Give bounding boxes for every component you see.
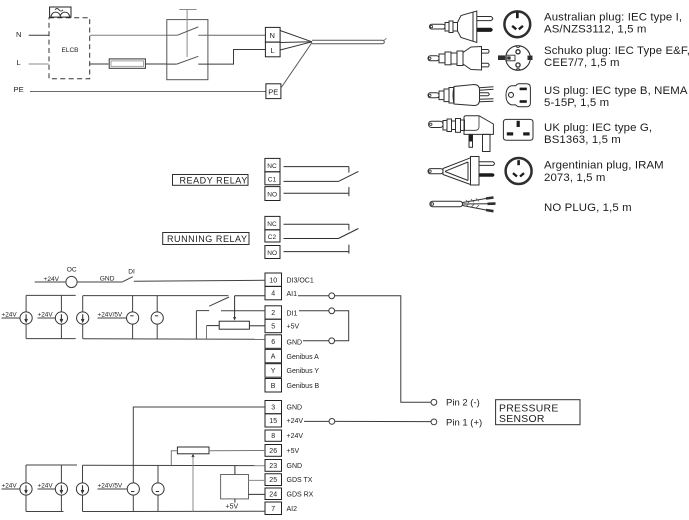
svg-text:7: 7 (271, 506, 275, 513)
svg-text:BS1363, 1,5 m: BS1363, 1,5 m (544, 134, 621, 146)
svg-text:DI: DI (128, 269, 135, 276)
svg-text:5: 5 (271, 324, 275, 331)
svg-text:AI1: AI1 (287, 291, 298, 298)
svg-text:L: L (271, 46, 275, 55)
svg-text:N: N (16, 30, 21, 39)
svg-text:+5V: +5V (287, 448, 300, 455)
svg-text:+5V: +5V (226, 504, 239, 511)
svg-text:+24V/5V: +24V/5V (98, 483, 123, 490)
svg-text:NC: NC (267, 221, 277, 228)
svg-text:DI3/OC1: DI3/OC1 (287, 277, 314, 284)
svg-text:24: 24 (269, 491, 277, 498)
svg-text:25: 25 (269, 477, 277, 484)
svg-text:GDS RX: GDS RX (287, 491, 314, 498)
svg-text:+24V: +24V (38, 483, 54, 490)
svg-text:NO: NO (267, 250, 277, 257)
svg-text:Schuko plug: IEC Type E&F,: Schuko plug: IEC Type E&F, (544, 45, 689, 57)
svg-text:+24V: +24V (38, 312, 54, 319)
svg-text:Argentinian plug, IRAM: Argentinian plug, IRAM (544, 160, 664, 172)
svg-text:23: 23 (269, 463, 277, 470)
svg-text:C1: C1 (268, 176, 277, 183)
svg-text:Genibus Y: Genibus Y (287, 368, 320, 375)
svg-text:3: 3 (271, 405, 275, 412)
svg-text:GND: GND (100, 275, 115, 282)
svg-text:Genibus A: Genibus A (287, 354, 320, 361)
svg-text:DI1: DI1 (287, 310, 298, 317)
svg-text:RUNNING RELAY: RUNNING RELAY (167, 234, 248, 244)
svg-text:2073, 1,5 m: 2073, 1,5 m (544, 172, 605, 184)
svg-text:+24V: +24V (287, 418, 304, 425)
svg-text:+24V/5V: +24V/5V (98, 312, 123, 319)
svg-text:C2: C2 (268, 234, 277, 241)
svg-text:US plug: IEC type B, NEMA: US plug: IEC type B, NEMA (544, 85, 688, 97)
svg-text:PE: PE (14, 85, 24, 94)
svg-text:5-15P, 1,5 m: 5-15P, 1,5 m (544, 97, 609, 109)
svg-text:NO: NO (267, 192, 277, 199)
svg-text:10: 10 (269, 277, 277, 284)
svg-text:GND: GND (287, 339, 303, 346)
svg-text:B: B (271, 383, 276, 390)
svg-text:+24V: +24V (2, 483, 18, 490)
svg-text:15: 15 (269, 418, 277, 425)
svg-text:CEE7/7, 1,5 m: CEE7/7, 1,5 m (544, 57, 620, 69)
svg-text:A: A (271, 354, 276, 361)
svg-text:N: N (270, 31, 275, 40)
svg-text:26: 26 (269, 448, 277, 455)
svg-text:L: L (17, 58, 21, 67)
svg-text:GND: GND (287, 405, 303, 412)
svg-text:GND: GND (287, 463, 303, 470)
svg-text:+24V: +24V (287, 433, 304, 440)
svg-text:AS/NZS3112, 1,5 m: AS/NZS3112, 1,5 m (544, 24, 647, 36)
svg-text:NC: NC (267, 163, 277, 170)
svg-text:6: 6 (271, 339, 275, 346)
svg-text:AI2: AI2 (287, 506, 298, 513)
svg-text:READY RELAY: READY RELAY (180, 175, 248, 185)
svg-text:4: 4 (271, 291, 275, 298)
svg-text:NO PLUG, 1,5 m: NO PLUG, 1,5 m (544, 202, 632, 214)
svg-text:+24V: +24V (2, 312, 18, 319)
svg-text:2: 2 (271, 310, 275, 317)
svg-text:PE: PE (268, 88, 278, 97)
svg-text:ELCB: ELCB (62, 47, 79, 54)
svg-text:+5V: +5V (287, 324, 300, 331)
svg-text:GDS TX: GDS TX (287, 477, 313, 484)
svg-text:8: 8 (271, 433, 275, 440)
svg-text:Pin 1 (+): Pin 1 (+) (446, 418, 482, 429)
svg-text:Genibus B: Genibus B (287, 383, 320, 390)
svg-text:SENSOR: SENSOR (499, 414, 545, 425)
svg-text:Y: Y (271, 368, 276, 375)
svg-text:UK plug: IEC type G,: UK plug: IEC type G, (544, 122, 652, 134)
svg-text:Pin 2 (-): Pin 2 (-) (446, 398, 480, 409)
svg-text:Australian plug: IEC type I,: Australian plug: IEC type I, (544, 12, 682, 24)
svg-text:OC: OC (67, 267, 77, 274)
